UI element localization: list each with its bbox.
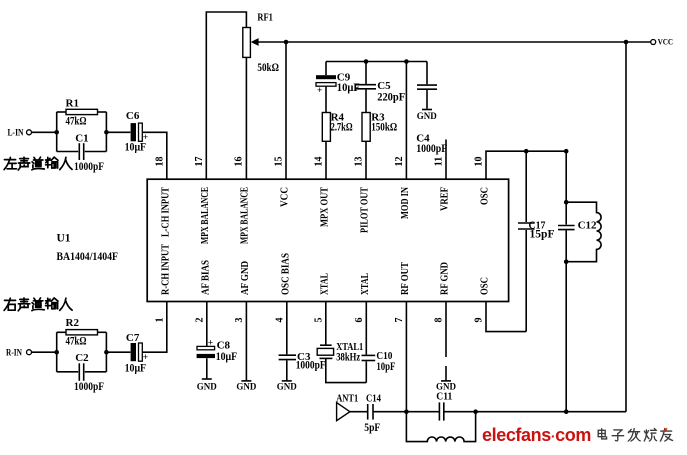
svg-text:OSC: OSC (480, 277, 491, 295)
svg-text:10μF: 10μF (125, 362, 147, 374)
svg-text:PILOT OUT: PILOT OUT (360, 187, 371, 233)
svg-text:C8: C8 (217, 339, 231, 351)
svg-text:VCC: VCC (280, 187, 291, 207)
svg-text:C14: C14 (366, 392, 381, 404)
svg-text:+: + (208, 338, 213, 348)
svg-text:AF GND: AF GND (240, 261, 251, 295)
svg-text:OSC: OSC (480, 187, 491, 205)
svg-text:2: 2 (194, 318, 205, 323)
svg-text:15pF: 15pF (530, 228, 555, 240)
svg-text:C12: C12 (578, 219, 597, 231)
svg-text:U1: U1 (57, 232, 71, 244)
svg-text:ANT1: ANT1 (336, 392, 358, 404)
svg-text:15: 15 (274, 157, 285, 167)
svg-text:6: 6 (354, 318, 365, 323)
svg-text:C2: C2 (75, 352, 89, 364)
svg-text:14: 14 (313, 157, 324, 167)
svg-text:+: + (143, 133, 148, 143)
svg-text:GND: GND (436, 382, 457, 392)
svg-text:3: 3 (234, 318, 245, 323)
svg-text:C6: C6 (126, 110, 140, 122)
svg-text:L-IN: L-IN (8, 128, 24, 138)
svg-text:47kΩ: 47kΩ (66, 116, 87, 128)
svg-text:AF BIAS: AF BIAS (200, 260, 211, 295)
svg-text:MPX BALANCE: MPX BALANCE (240, 187, 251, 244)
svg-text:1000pF: 1000pF (296, 360, 326, 372)
svg-text:7: 7 (394, 318, 405, 323)
svg-text:RF GND: RF GND (440, 262, 451, 295)
svg-text:C5: C5 (377, 80, 391, 92)
svg-text:1000pF: 1000pF (416, 143, 447, 155)
svg-text:MPX OUT: MPX OUT (319, 187, 330, 227)
svg-text:47kΩ: 47kΩ (66, 335, 87, 347)
svg-text:11: 11 (434, 157, 445, 166)
svg-text:10pF: 10pF (376, 361, 395, 373)
svg-text:GND: GND (277, 382, 298, 392)
svg-text:elecfans·com: elecfans·com (482, 425, 591, 445)
svg-text:10μF: 10μF (125, 141, 147, 153)
svg-text:L-CH INPUT: L-CH INPUT (160, 187, 171, 237)
svg-text:R2: R2 (66, 317, 80, 329)
svg-text:R1: R1 (66, 97, 79, 109)
svg-text:1000pF: 1000pF (74, 161, 104, 173)
svg-text:MPX BALANCE: MPX BALANCE (200, 187, 211, 244)
svg-text:12: 12 (394, 157, 405, 167)
svg-text:C11: C11 (436, 391, 452, 403)
svg-text:5: 5 (313, 318, 324, 323)
svg-text:4: 4 (274, 318, 285, 323)
svg-text:R-CH INPUT: R-CH INPUT (160, 244, 171, 295)
svg-text:5pF: 5pF (364, 422, 380, 434)
svg-text:VCC: VCC (658, 37, 674, 46)
svg-text:18: 18 (154, 157, 165, 167)
svg-text:GND: GND (417, 111, 438, 121)
svg-text:1: 1 (154, 318, 165, 323)
svg-text:VREF: VREF (440, 187, 451, 211)
svg-text:GND: GND (197, 382, 218, 392)
svg-text:+: + (317, 86, 322, 96)
svg-text:XTAL: XTAL (360, 273, 371, 295)
svg-text:2.7kΩ: 2.7kΩ (331, 122, 353, 134)
svg-text:+: + (143, 353, 148, 363)
svg-text:17: 17 (194, 157, 205, 167)
svg-text:MOD IN: MOD IN (400, 187, 411, 219)
svg-text:XTAL: XTAL (319, 273, 330, 295)
svg-text:BA1404/1404F: BA1404/1404F (57, 251, 119, 263)
svg-text:50kΩ: 50kΩ (257, 62, 279, 74)
svg-text:13: 13 (354, 157, 365, 167)
svg-text:C7: C7 (126, 332, 140, 344)
svg-text:150kΩ: 150kΩ (371, 122, 397, 134)
svg-text:38kHz: 38kHz (336, 352, 360, 364)
svg-text:OSC BIAS: OSC BIAS (280, 253, 291, 295)
svg-text:GND: GND (236, 382, 257, 392)
svg-text:RF1: RF1 (257, 11, 273, 23)
svg-text:10μF: 10μF (337, 82, 360, 94)
svg-text:8: 8 (434, 318, 445, 323)
svg-text:16: 16 (234, 157, 245, 167)
svg-text:C1: C1 (75, 132, 88, 144)
svg-text:220pF: 220pF (377, 92, 405, 104)
svg-text:1000pF: 1000pF (74, 381, 104, 393)
svg-text:10: 10 (474, 157, 485, 167)
svg-text:10μF: 10μF (216, 351, 238, 363)
svg-text:R-IN: R-IN (6, 348, 22, 358)
svg-text:9: 9 (474, 318, 485, 323)
svg-text:RF OUT: RF OUT (400, 262, 411, 295)
